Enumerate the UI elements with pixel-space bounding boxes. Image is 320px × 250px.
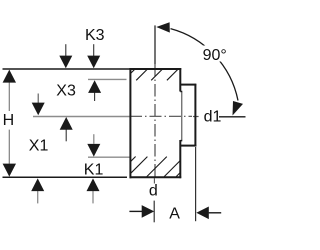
svg-text:90°: 90°	[203, 47, 227, 64]
svg-text:d: d	[149, 183, 158, 200]
svg-text:d1: d1	[204, 109, 222, 126]
svg-text:H: H	[3, 112, 15, 129]
svg-text:A: A	[169, 206, 180, 223]
svg-text:K1: K1	[84, 162, 104, 179]
svg-text:K3: K3	[85, 27, 105, 44]
svg-text:X1: X1	[29, 138, 49, 155]
svg-text:X3: X3	[56, 83, 76, 100]
